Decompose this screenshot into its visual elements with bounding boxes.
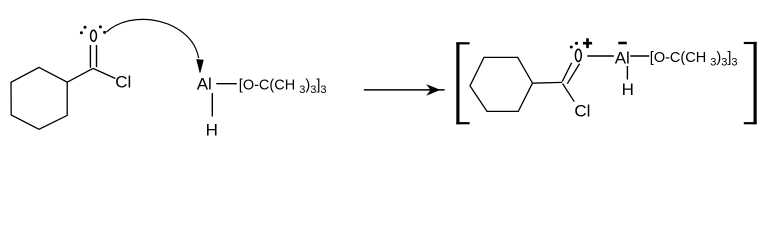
wire: bond Al to H (reactant) — [211, 93, 213, 117]
arrowhead of curved arrow — [197, 60, 203, 73]
atom O (reactant carbonyl, drawn as oval) — [91, 30, 97, 41]
right bracket of product complex — [744, 42, 757, 124]
svg-text:Cl: Cl — [574, 101, 590, 120]
wire: bond ring to carbonyl C — [67, 68, 93, 82]
atom O (product oxocarbenium, drawn as oval) — [575, 49, 581, 61]
plus charge on O (product) — [583, 38, 592, 48]
minus charge on Al (product) — [618, 42, 627, 45]
cyclohexane ring (product) — [470, 57, 533, 111]
lone pair dots on O (product) — [570, 42, 578, 49]
svg-text:Al: Al — [197, 74, 212, 93]
curved electron-pushing arrow from O lone pair to Al — [107, 19, 199, 58]
svg-text:Cl: Cl — [115, 73, 131, 92]
wire: bond C to Cl (product) — [563, 84, 575, 102]
svg-text:H: H — [622, 80, 634, 99]
svg-text:H: H — [206, 120, 218, 139]
wire: bond Al to alkoxide group — [216, 83, 237, 85]
wire: bond C to Cl — [93, 68, 115, 78]
cyclohexane ring (reactant) — [11, 67, 67, 129]
left bracket of product complex — [456, 42, 469, 124]
wire: bond ring to carbonyl C (product) — [533, 81, 563, 84]
reaction arrowhead — [428, 86, 438, 94]
svg-text:Al: Al — [615, 48, 630, 67]
wire: bond Al to H (product) — [626, 66, 628, 80]
wire: C=O double bond (product) — [562, 63, 579, 84]
reaction arrow — [364, 89, 445, 91]
wire: bond Al to alkoxide group (product) — [630, 55, 649, 57]
lone pair dots on O (reactant) — [80, 25, 106, 34]
wire: C=O double bond (reactant) — [90, 45, 96, 68]
wire: bond O to Al (product) — [587, 55, 614, 57]
